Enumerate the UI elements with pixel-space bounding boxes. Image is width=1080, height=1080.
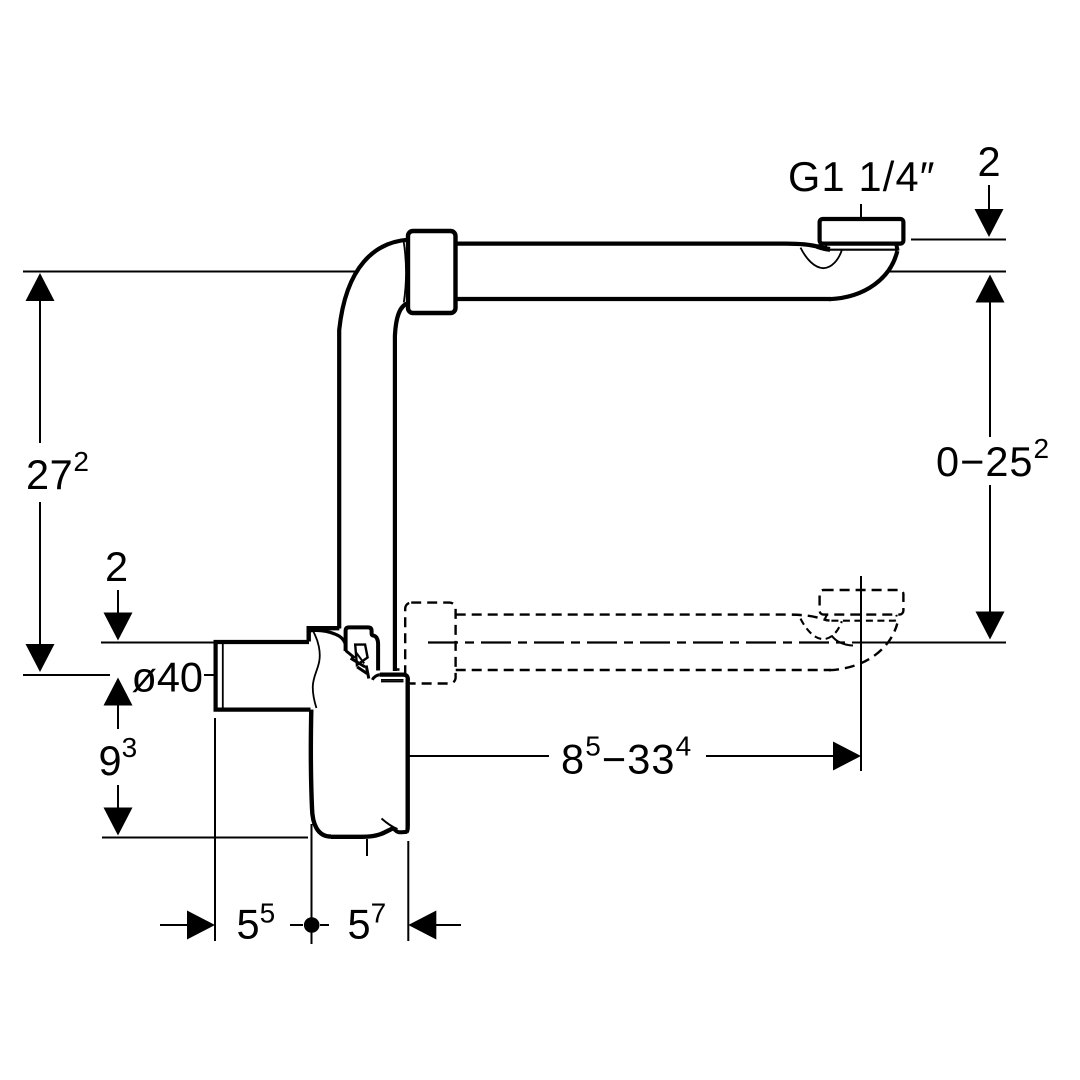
arrow down 0-25^2	[976, 612, 1005, 640]
wire: extension line trap bottom	[102, 837, 308, 839]
wire: leader G1 1/4	[860, 204, 862, 218]
elbow inner curve and riser right edge	[395, 303, 409, 671]
elbow outer curve and riser left edge	[339, 240, 408, 629]
wire: extension line right outlet axis (0-25 bottom)	[852, 642, 1006, 644]
trap body ledge left curl	[372, 675, 380, 680]
wire: tick between o40 label and pipe	[204, 674, 214, 676]
pipe: horizontal outlet top edge	[456, 244, 830, 250]
pipe top edge end blob	[817, 246, 830, 249]
coupling nut at elbow	[408, 231, 456, 313]
wire: extension line right pipe top (2 dim lower / 0-25 top)	[886, 271, 1006, 273]
wire: dot side stubs	[290, 924, 329, 926]
svg-text:2: 2	[978, 138, 1001, 185]
solid arc fragment at dashed outlet end	[832, 636, 854, 646]
flange G1 1/4	[820, 219, 904, 244]
pipe: outlet end sweep up	[829, 251, 897, 299]
dimension 27^2 vertical line	[39, 299, 41, 646]
svg-text:85−334: 85−334	[561, 731, 692, 783]
arrow right 8-33	[833, 742, 861, 771]
flange lip	[825, 244, 897, 250]
wire: extension line inlet centerline left (o40 axis)	[23, 674, 110, 676]
riser right edge foot tick	[395, 668, 400, 671]
trap body left edge and bottom-left corner	[311, 710, 331, 837]
svg-text:G1 1/4″: G1 1/4″	[788, 153, 936, 200]
pipe: cup hollow under flange	[801, 248, 842, 269]
wire: center tick under trap	[366, 839, 368, 856]
dashed cup hollow	[801, 619, 842, 640]
trap body ledge	[380, 675, 408, 680]
dimension 0-25^2 vertical line	[989, 301, 991, 612]
dimension 8^5-33^4 line	[409, 755, 834, 757]
dimension 2 top-right stem	[988, 185, 990, 210]
dashed outlet pipe top edge	[456, 615, 830, 621]
wire: extension line under trap right edge	[407, 841, 409, 941]
lip right corner junction	[896, 244, 897, 251]
trap body top edge with step	[309, 628, 340, 641]
dashed sliding nut (alternative position)	[405, 603, 455, 684]
pipe: horizontal outlet bottom edge	[456, 297, 831, 301]
arrow down 9^3	[104, 808, 133, 836]
wire: extension line top-left (level of pipe top, 27/0-25 datum)	[23, 271, 356, 273]
bottom dimension tail left	[160, 924, 188, 926]
node: datum dot between 5^5 and 5^7	[304, 917, 320, 933]
trap body right edge	[407, 679, 408, 832]
arrow up 9^3	[104, 678, 133, 706]
dimension 2 left stem	[117, 590, 119, 613]
dashed outlet end sweep	[829, 624, 897, 671]
wire: extension line outlet axis level at left	[101, 642, 214, 644]
dashed flange lip	[825, 615, 897, 621]
wire: extension line under pipe left edge	[214, 718, 216, 941]
trap body wavy break line	[313, 632, 320, 708]
dashed flange	[820, 590, 904, 615]
clip window	[355, 645, 367, 665]
trap body break crack thin	[382, 819, 398, 830]
trap body dome arc	[311, 630, 346, 645]
clip outer outline	[346, 627, 379, 670]
pipe end arc behind nut	[404, 241, 406, 303]
trap body ledge seam lines	[381, 680, 404, 682]
inlet pipe cap inner line	[222, 644, 224, 709]
dashed outlet pipe bottom edge	[456, 669, 831, 671]
wire: mid extension line through dot	[311, 824, 313, 944]
wire: extension line through dashed flange center	[860, 576, 862, 771]
arrow up 0-25^2	[976, 275, 1005, 303]
trap body bottom right curl	[394, 828, 408, 832]
arrow down 2 left	[104, 613, 133, 641]
clip lower-left edge	[346, 651, 355, 659]
arrow left 5^7	[408, 911, 436, 940]
arrow down 27^2	[26, 644, 55, 672]
clip hatch lines	[351, 658, 369, 678]
arrow right 5^5	[187, 911, 215, 940]
bottom dimension tail right	[435, 924, 461, 926]
arrow down 2 top-right	[975, 209, 1004, 237]
inlet pipe o40 outline	[216, 642, 311, 710]
wire: extension line right of flange (2 dim upper)	[911, 239, 1006, 241]
dimension 9^3 stems	[117, 704, 119, 808]
arrow up 27^2	[26, 273, 55, 301]
wire: dash-dot centerline of outlet	[428, 641, 852, 643]
svg-text:ø40: ø40	[132, 654, 204, 701]
svg-text:2: 2	[105, 543, 128, 590]
trap body bottom edge	[331, 828, 394, 837]
clip window diagonal	[356, 652, 365, 664]
svg-text:0−252: 0−252	[936, 433, 1050, 485]
